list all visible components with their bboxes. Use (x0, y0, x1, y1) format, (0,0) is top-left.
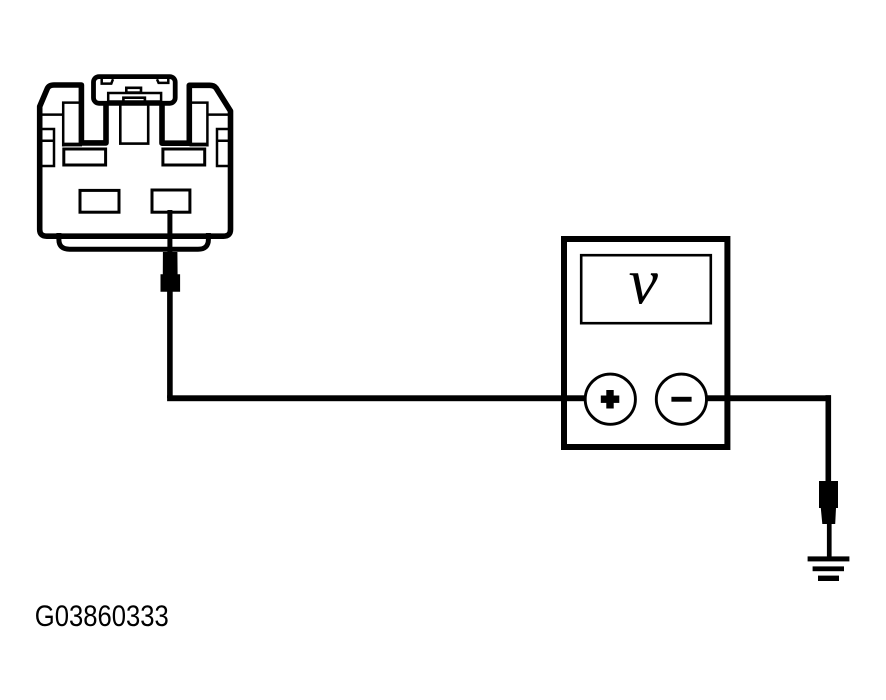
voltmeter body (564, 239, 727, 447)
voltmeter negative terminal (656, 374, 706, 424)
ground (808, 556, 850, 581)
connector body outline (40, 85, 231, 236)
connector inner line right upper (207, 113, 230, 116)
svg-text:v: v (629, 245, 659, 318)
connector inner window left (63, 103, 79, 147)
connector window right (163, 145, 209, 166)
test probe P1 tip (161, 252, 181, 292)
wire right vertical (826, 395, 832, 481)
connector center tower (120, 103, 148, 144)
latch center wide block (108, 93, 161, 102)
connector side slot right (217, 129, 231, 166)
latch center tab (126, 88, 141, 93)
voltmeter V label (629, 245, 659, 318)
connector inner window right (192, 103, 208, 147)
connector latch (94, 77, 176, 104)
connector bottom lip (59, 233, 209, 249)
wire probe to cavity (167, 210, 172, 255)
voltmeter display (581, 255, 711, 323)
connector side slot left (41, 129, 55, 166)
wire to ground (827, 523, 832, 558)
connector window left (62, 145, 106, 166)
test probe P2 tip (819, 481, 838, 524)
connector pin cavity 1 (80, 190, 119, 212)
connector inner line left upper (40, 113, 63, 116)
latch notch right (157, 79, 168, 83)
latch center lip (123, 98, 144, 103)
label G03860333 (35, 600, 169, 633)
latch notch left (102, 79, 113, 84)
wire probe vertical (167, 291, 173, 398)
wire horizontal run (167, 395, 831, 401)
connector pin cavity 2 (152, 190, 190, 212)
svg-text:G03860333: G03860333 (35, 600, 169, 633)
voltmeter positive terminal (585, 374, 635, 424)
